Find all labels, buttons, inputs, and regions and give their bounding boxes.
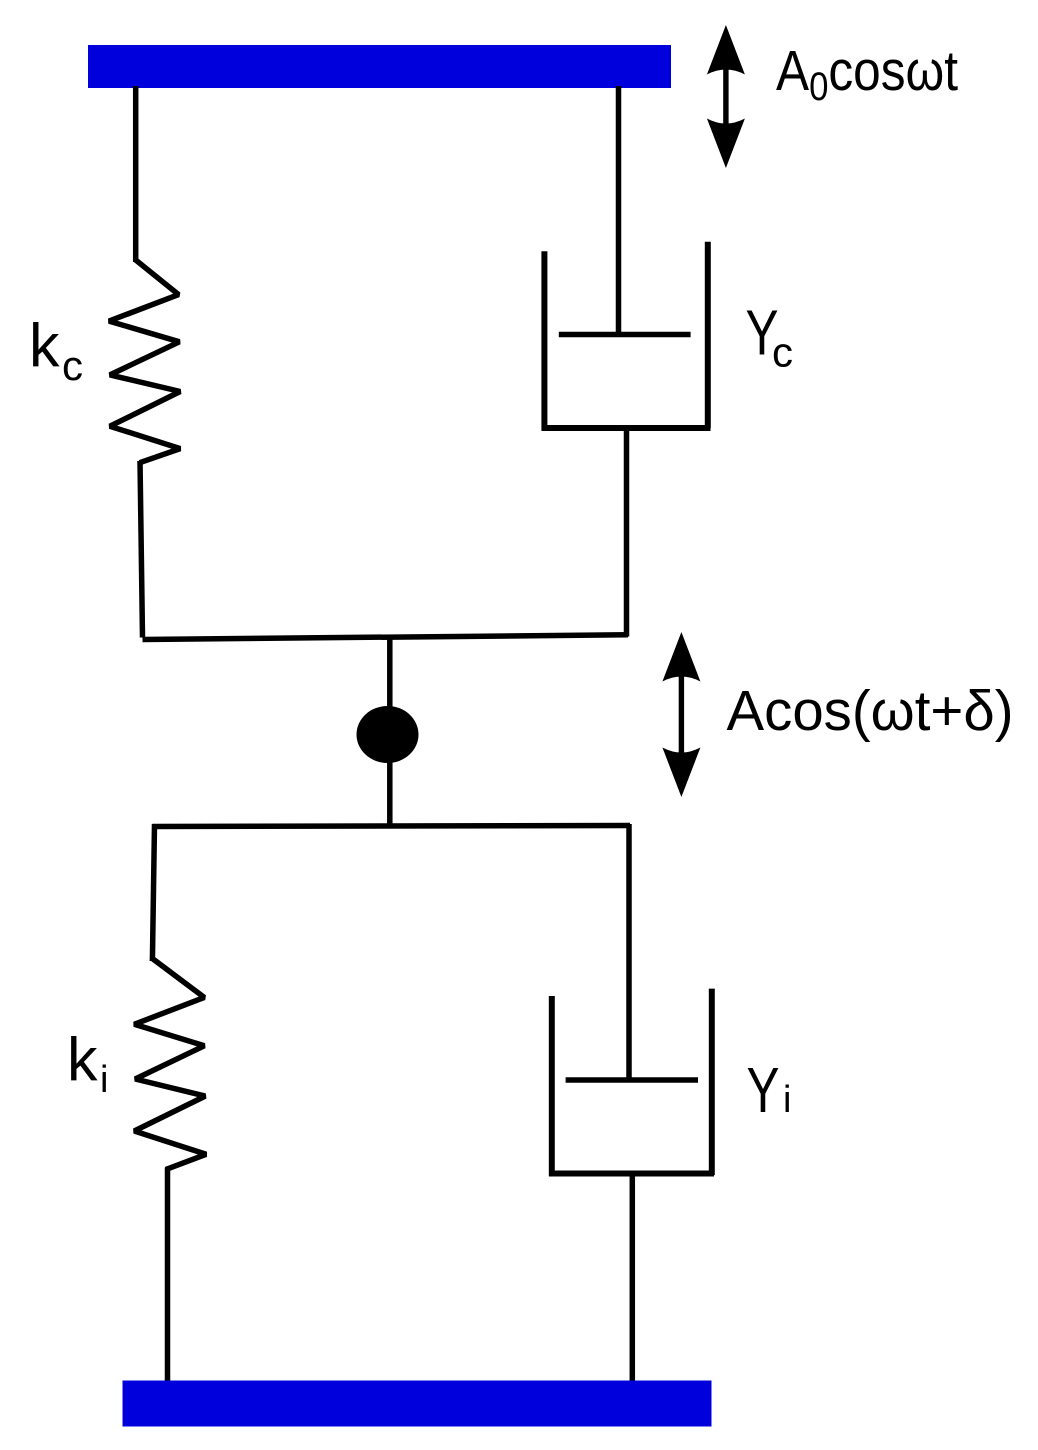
damper gamma_c cylinder right wall [705, 242, 711, 429]
damper gamma_c piston plate [559, 332, 691, 338]
spring k_i [134, 959, 206, 1170]
wire: lower junction to spring k_i [152, 824, 154, 961]
wire: node to lower junction wire [387, 734, 393, 827]
wire: damper gamma_c to upper junction wire [624, 428, 630, 637]
top driven plate (blue bar) [88, 45, 671, 88]
svg-text:k: k [67, 1025, 98, 1093]
svg-text:i: i [783, 1079, 791, 1121]
svg-text:Acos(ωt+δ): Acos(ωt+δ) [727, 679, 1014, 743]
bottom fixed plate (blue bar) [123, 1381, 712, 1427]
svg-text:Y: Y [747, 1054, 780, 1126]
svg-text:c: c [772, 329, 793, 376]
lower junction wire (horizontal) [153, 826, 631, 827]
damper gamma_i cylinder bottom [549, 1171, 714, 1177]
wire: upper junction to node [387, 636, 393, 734]
upper junction wire (horizontal) [143, 635, 629, 640]
damper gamma_i piston rod [626, 824, 632, 1080]
svg-text:A0cosωt: A0cosωt [776, 39, 958, 109]
spring k_c [109, 260, 180, 463]
node (mass point) [357, 706, 419, 763]
svg-text:i: i [100, 1059, 108, 1101]
damper gamma_i cylinder right wall [709, 989, 715, 1176]
wire: damper gamma_i to bottom plate [630, 1174, 636, 1383]
damper gamma_c cylinder left wall [541, 251, 547, 430]
damper gamma_i cylinder left wall [549, 996, 555, 1176]
damper gamma_c cylinder bottom [542, 425, 711, 431]
damper gamma_c piston rod [616, 86, 622, 334]
motion arrow A0 (double-headed, top) [707, 25, 745, 168]
damper gamma_i piston plate [566, 1077, 698, 1083]
wire: top plate to spring k_c [133, 86, 139, 262]
motion arrow A (double-headed, middle) [662, 632, 700, 797]
wire: spring k_i to bottom plate [165, 1168, 171, 1382]
svg-text:k: k [29, 312, 60, 380]
wire: spring k_c to upper junction wire [140, 461, 143, 638]
svg-text:c: c [62, 342, 83, 389]
